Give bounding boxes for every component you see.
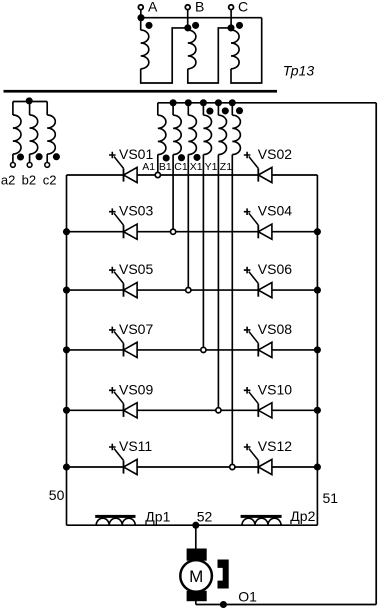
svg-text:VS03: VS03 bbox=[119, 203, 153, 219]
node left bus junction bbox=[63, 463, 70, 470]
thyristor VS12 bbox=[244, 438, 292, 475]
choke Dr2 core bbox=[241, 515, 282, 518]
wire motor to outer return bbox=[196, 604, 376, 606]
svg-text:Тр13: Тр13 bbox=[283, 63, 315, 79]
core separator bar bbox=[4, 90, 278, 93]
thyristor VS03 bbox=[109, 203, 153, 240]
svg-text:VS12: VS12 bbox=[258, 438, 292, 454]
wire A terminal drop bbox=[140, 10, 142, 18]
primary winding W1 (A-B) bbox=[141, 18, 188, 83]
svg-text:A1: A1 bbox=[142, 161, 155, 173]
thyristor VS07 bbox=[109, 321, 153, 358]
motor M brush bracket bbox=[218, 560, 229, 589]
svg-text:a2: a2 bbox=[1, 172, 15, 187]
terminal b2 bbox=[27, 163, 32, 168]
left secondary winding a2 bbox=[13, 102, 21, 163]
primary winding W3 (C-A) bbox=[231, 18, 262, 83]
thyristor VS05 bbox=[109, 261, 153, 298]
node Z1 row terminal bbox=[230, 464, 235, 469]
transformer Tp13 primary phase terminal B bbox=[185, 0, 204, 15]
node C junction bbox=[227, 24, 234, 31]
label Z1 bbox=[220, 161, 232, 173]
polarity dot b2 bbox=[36, 153, 43, 160]
label O1 bbox=[238, 589, 257, 605]
svg-text:VS06: VS06 bbox=[258, 261, 292, 277]
motor M letter bbox=[189, 567, 203, 586]
label a2 bbox=[1, 172, 15, 187]
transformer Tp13 primary phase terminal C bbox=[229, 0, 248, 15]
svg-text:VS05: VS05 bbox=[119, 261, 153, 277]
choke Dr2 winding bbox=[242, 518, 281, 525]
svg-text:B1: B1 bbox=[159, 161, 172, 173]
node secondary bus C1 bbox=[185, 99, 192, 106]
thyristor VS09 bbox=[109, 381, 153, 418]
node right bus junction bbox=[314, 346, 321, 353]
polarity dot A1 bbox=[163, 154, 170, 161]
label Dr1 bbox=[145, 509, 170, 525]
svg-text:O1: O1 bbox=[238, 589, 257, 605]
choke Dr1 winding bbox=[96, 518, 135, 525]
wire B terminal drop bbox=[187, 10, 189, 28]
secondary winding A1 bbox=[158, 103, 166, 172]
thyristor VS08 bbox=[244, 321, 292, 358]
node secondary bus X1 bbox=[200, 99, 207, 106]
svg-text:C: C bbox=[238, 0, 248, 15]
svg-text:VS09: VS09 bbox=[119, 381, 153, 397]
svg-text:VS11: VS11 bbox=[119, 438, 152, 454]
node left bus junction bbox=[63, 346, 70, 353]
node left bus junction bbox=[63, 287, 70, 294]
svg-text:51: 51 bbox=[323, 490, 339, 506]
wire primary top link A to U3 right leg bbox=[141, 17, 262, 19]
thyristor VS06 bbox=[244, 261, 292, 298]
left secondary winding b2 bbox=[30, 102, 38, 163]
motor M brush block top bbox=[187, 549, 207, 561]
node A1 row terminal bbox=[155, 172, 160, 177]
label X1 bbox=[190, 161, 203, 173]
left secondary star bus bbox=[13, 101, 47, 103]
polarity dot B1 bbox=[178, 154, 185, 161]
terminal c2 bbox=[45, 163, 50, 168]
motor M armature circle bbox=[180, 560, 212, 592]
node A junction bbox=[137, 14, 144, 21]
thyristor VS01 bbox=[109, 146, 153, 183]
terminal a2 bbox=[11, 163, 16, 168]
right bus (node 51) bbox=[316, 175, 318, 525]
svg-text:X1: X1 bbox=[190, 161, 203, 173]
primary winding W2 polarity dot bbox=[192, 22, 199, 29]
wire rail to motor bbox=[195, 525, 197, 549]
svg-text:50: 50 bbox=[49, 487, 65, 503]
node Y1 row terminal bbox=[216, 408, 221, 413]
row 1 bus bbox=[67, 174, 318, 176]
label 50 bbox=[49, 487, 65, 503]
row 4 bus bbox=[67, 349, 318, 351]
bottom rail bbox=[67, 524, 318, 526]
node left bus junction bbox=[63, 407, 70, 414]
svg-text:Др2: Др2 bbox=[290, 508, 315, 524]
node O1 bbox=[220, 601, 227, 608]
svg-text:VS08: VS08 bbox=[258, 321, 292, 337]
node right bus junction bbox=[314, 287, 321, 294]
secondary winding C1 bbox=[188, 103, 196, 287]
node B junction bbox=[184, 24, 191, 31]
left bus (node 50) bbox=[66, 175, 68, 525]
row 5 bus bbox=[67, 409, 318, 411]
left secondary winding c2 bbox=[47, 102, 55, 163]
label A1 bbox=[142, 161, 155, 173]
wire C terminal drop bbox=[230, 10, 232, 28]
thyristor VS02 bbox=[244, 146, 292, 183]
svg-text:VS01: VS01 bbox=[119, 146, 153, 162]
row 6 bus bbox=[67, 466, 318, 468]
node right bus junction bbox=[314, 463, 321, 470]
thyristor VS11 bbox=[109, 438, 152, 475]
polarity dot C1 bbox=[193, 154, 200, 161]
svg-text:VS07: VS07 bbox=[119, 321, 153, 337]
polarity dot Y1 bbox=[222, 107, 229, 114]
svg-text:VS04: VS04 bbox=[258, 203, 292, 219]
svg-text:VS02: VS02 bbox=[258, 146, 292, 162]
polarity dot X1 bbox=[206, 108, 213, 115]
svg-text:М: М bbox=[189, 567, 203, 586]
svg-text:b2: b2 bbox=[22, 172, 36, 187]
label b2 bbox=[22, 172, 36, 187]
svg-text:Z1: Z1 bbox=[220, 161, 232, 173]
node secondary bus Z1 bbox=[229, 99, 236, 106]
label c2 bbox=[43, 172, 57, 187]
node secondary bus B1 bbox=[170, 99, 177, 106]
node C1 row terminal bbox=[186, 288, 191, 293]
svg-text:VS10: VS10 bbox=[258, 381, 292, 397]
svg-text:c2: c2 bbox=[43, 172, 57, 187]
outer return wire right side bbox=[375, 103, 377, 605]
primary winding W2 (B-C) bbox=[188, 28, 231, 83]
svg-text:Y1: Y1 bbox=[205, 161, 218, 173]
polarity dot Z1 bbox=[236, 107, 243, 114]
node X1 row terminal bbox=[201, 347, 206, 352]
secondary winding Y1 bbox=[218, 103, 226, 407]
label 51 bbox=[323, 490, 339, 506]
secondary winding B1 bbox=[173, 103, 181, 229]
row 2 bus bbox=[67, 231, 318, 233]
primary winding W1 polarity dot bbox=[145, 22, 152, 29]
node right bus junction bbox=[314, 407, 321, 414]
polarity dot a2 bbox=[17, 153, 24, 160]
transformer Tp13 primary phase terminal A bbox=[138, 0, 158, 15]
label Y1 bbox=[205, 161, 218, 173]
label 52 bbox=[197, 509, 213, 525]
node secondary bus Y1 bbox=[215, 99, 222, 106]
choke Dr1 core bbox=[95, 515, 135, 518]
svg-text:A: A bbox=[148, 0, 158, 15]
node left bus junction bbox=[63, 228, 70, 235]
left secondary star point bbox=[26, 97, 33, 104]
thyristor VS10 bbox=[244, 381, 292, 418]
svg-text:C1: C1 bbox=[174, 161, 188, 173]
secondary winding X1 bbox=[203, 103, 211, 347]
svg-text:Др1: Др1 bbox=[145, 509, 170, 525]
secondary winding Z1 bbox=[232, 103, 240, 464]
label Tp13 bbox=[283, 63, 315, 79]
svg-text:52: 52 bbox=[197, 509, 213, 525]
label B1 bbox=[159, 161, 172, 173]
thyristor VS04 bbox=[244, 203, 292, 240]
node right bus junction bbox=[314, 228, 321, 235]
node B1 row terminal bbox=[171, 229, 176, 234]
polarity dot c2 bbox=[53, 153, 60, 160]
node 52 tap bbox=[192, 522, 199, 529]
secondary neutral bus bbox=[158, 102, 376, 104]
svg-text:B: B bbox=[195, 0, 204, 15]
motor M brush block bottom bbox=[187, 591, 207, 601]
wire motor lower lead bbox=[195, 601, 197, 605]
row 3 bus bbox=[67, 289, 318, 291]
label C1 bbox=[174, 161, 188, 173]
label Dr2 bbox=[290, 508, 315, 524]
primary winding W3 polarity dot bbox=[236, 22, 243, 29]
